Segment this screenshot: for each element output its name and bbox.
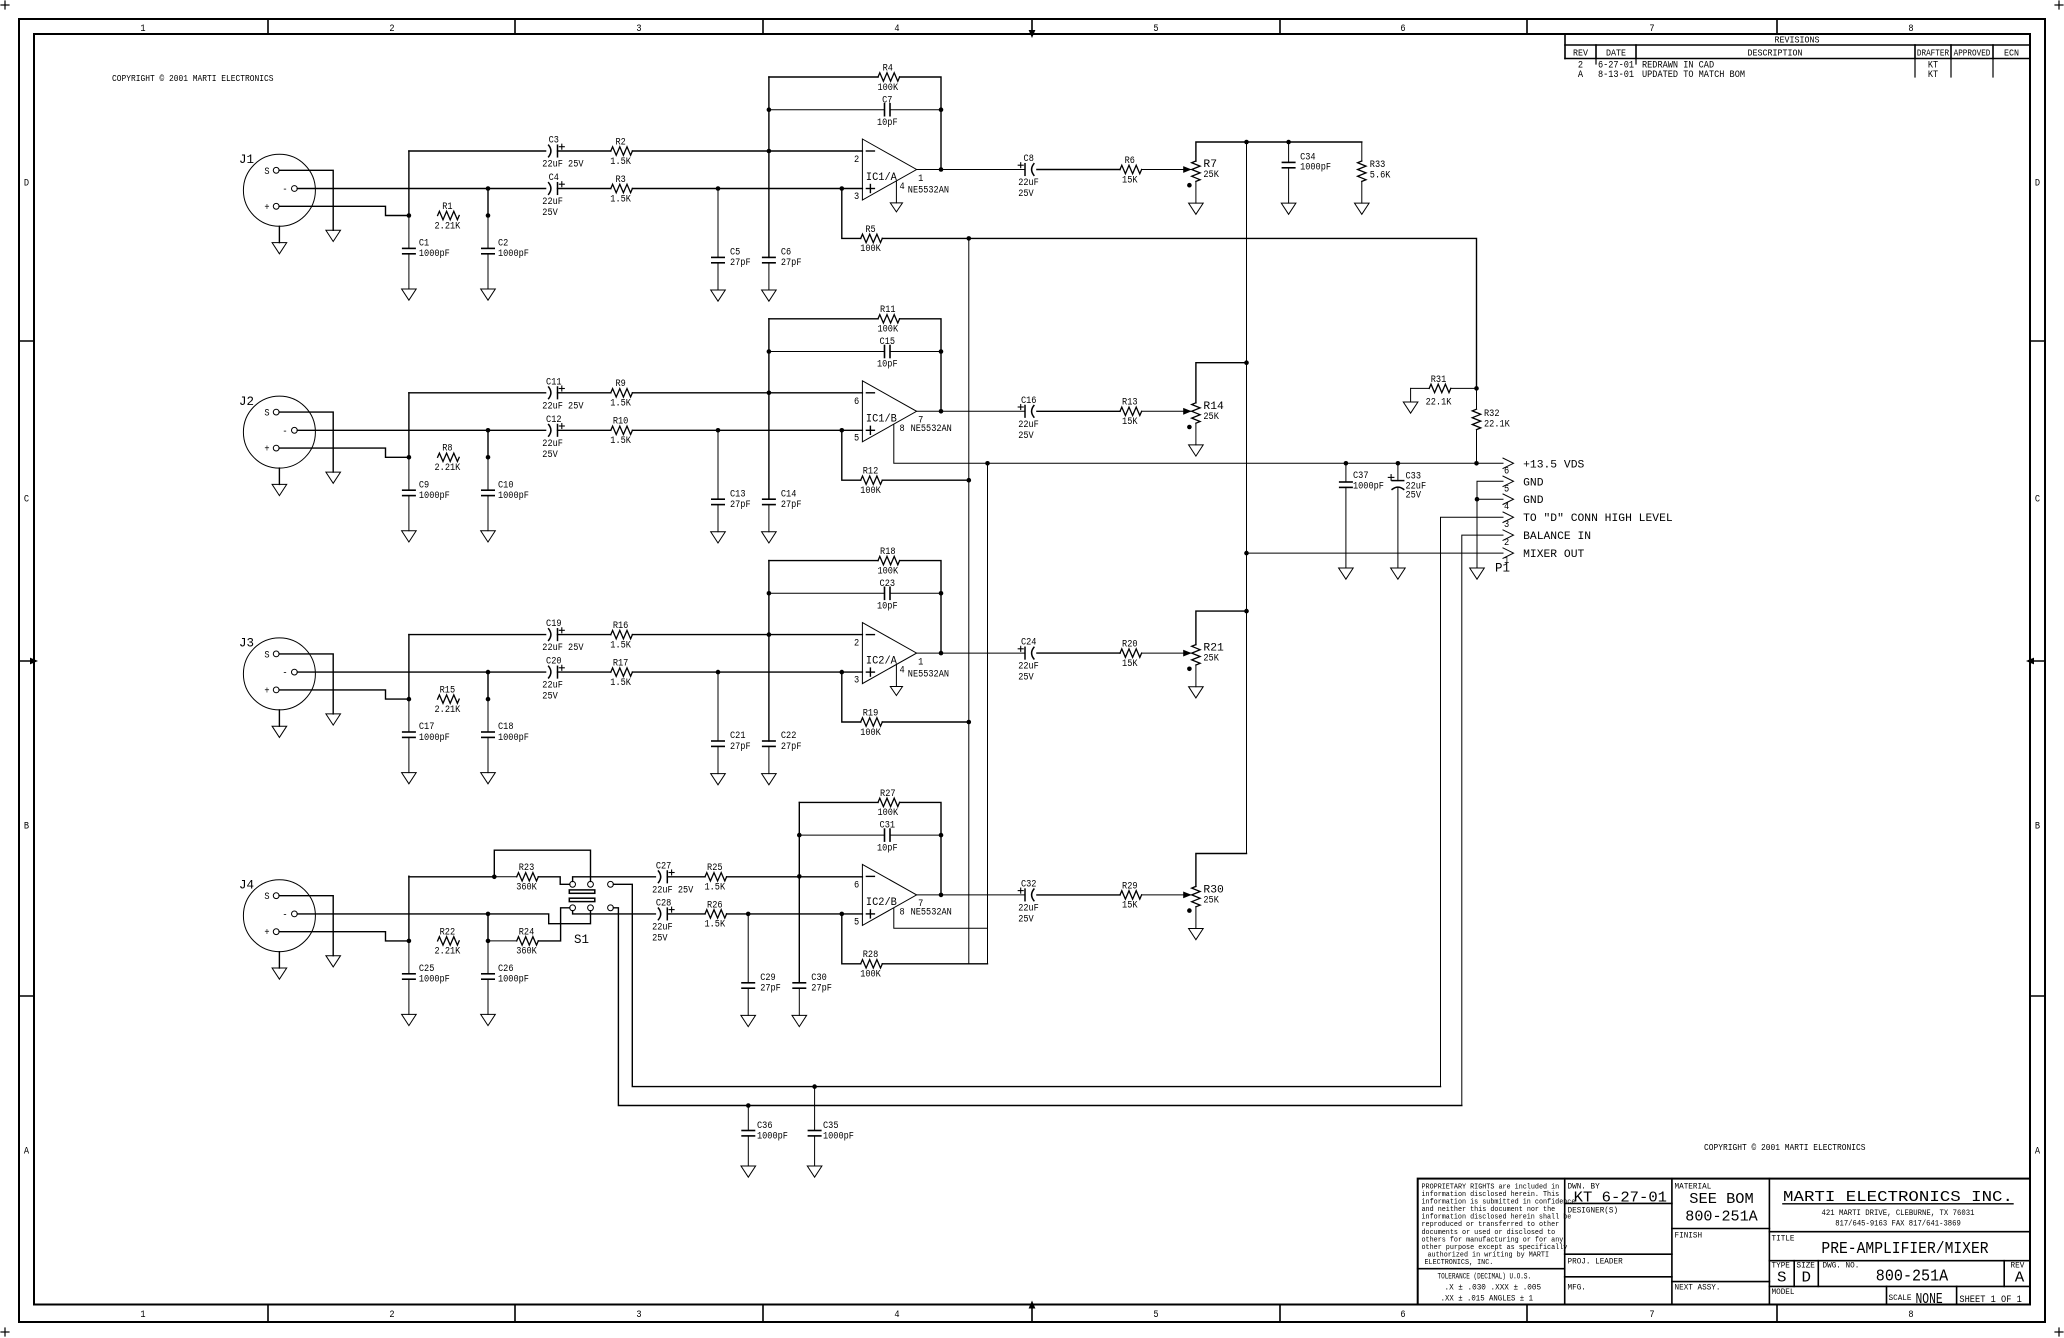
wire Rs1 to op-amp pin2/6	[632, 634, 862, 636]
svg-text:.XX ± .015 ANGLES ± 1: .XX ± .015 ANGLES ± 1	[1441, 1296, 1534, 1304]
svg-text:25V: 25V	[542, 208, 558, 219]
svg-text:5: 5	[854, 917, 859, 928]
ground C21	[711, 774, 726, 785]
resistor R22	[435, 927, 461, 957]
wire feedback left vertical	[798, 802, 800, 982]
wire R29 to R30 wiper	[1142, 894, 1191, 896]
wire Rs2 to op-amp pin3/5	[632, 188, 862, 190]
svg-text:2.21K: 2.21K	[435, 705, 461, 716]
node R8 right junction	[486, 455, 491, 460]
top border ticks	[268, 19, 1777, 34]
svg-text:R16: R16	[613, 621, 629, 632]
wire Cs2 to Rs2	[558, 188, 611, 190]
wire P1 pin4 GND	[1477, 498, 1503, 500]
potentiometer R30	[1192, 884, 1224, 906]
svg-text:+: +	[264, 445, 269, 456]
svg-text:A: A	[2015, 1270, 2025, 1287]
svg-text:27pF: 27pF	[781, 742, 802, 753]
ground C6	[762, 290, 777, 301]
svg-text:3: 3	[854, 192, 859, 203]
revisions table	[1565, 34, 2030, 77]
resistor R24	[488, 927, 538, 957]
J1 pin S	[264, 167, 279, 178]
wire R21 top rail	[1196, 611, 1247, 645]
ground C33	[1391, 568, 1406, 579]
svg-text:10pF: 10pF	[877, 360, 898, 371]
svg-text:R23: R23	[519, 863, 535, 874]
wire input column B vertical	[487, 914, 489, 941]
resistor R15	[435, 686, 461, 716]
resistor R10	[610, 417, 632, 447]
ground C37	[1339, 568, 1354, 579]
resistor R25	[705, 863, 727, 893]
svg-text:J3: J3	[239, 637, 254, 651]
op-amp IC1/B	[862, 381, 916, 442]
svg-text:-: -	[282, 427, 287, 438]
svg-text:GND: GND	[1523, 495, 1544, 507]
node op-amp output junction	[939, 651, 944, 656]
wire feedback left vertical	[768, 77, 770, 257]
capacitor C25	[403, 941, 450, 1015]
wire R12 to +13.5 vertical	[882, 479, 969, 481]
svg-text:25K: 25K	[1203, 170, 1219, 181]
svg-text:C37: C37	[1353, 471, 1369, 482]
svg-text:800-251A: 800-251A	[1876, 1268, 1949, 1287]
svg-text:8: 8	[1908, 1310, 1913, 1321]
node C37 junction	[1344, 461, 1349, 466]
svg-text:15K: 15K	[1122, 175, 1138, 186]
svg-text:C22: C22	[781, 731, 797, 742]
wire Cs2 to Rs2	[558, 671, 611, 673]
J1 pin +	[264, 203, 279, 214]
svg-text:C26: C26	[498, 964, 514, 975]
svg-text:R15: R15	[440, 686, 456, 697]
op-amp IC2/B	[862, 864, 916, 925]
svg-text:1.5K: 1.5K	[705, 920, 726, 931]
potentiometer R21	[1192, 643, 1224, 665]
wire Cs1 to Rs1	[558, 634, 611, 636]
resistor R2	[610, 137, 632, 167]
wire input column B vertical	[487, 189, 489, 216]
svg-text:22uF: 22uF	[1018, 420, 1039, 431]
svg-text:DRAFTER: DRAFTER	[1917, 48, 1949, 59]
svg-text:D: D	[24, 179, 29, 190]
node R32 to +13.5 line	[1474, 461, 1479, 466]
wire R21 bottom to ground	[1195, 665, 1197, 687]
wire R13 to R14 wiper	[1142, 410, 1191, 412]
svg-text:C5: C5	[730, 248, 740, 259]
wire input column A vertical	[408, 393, 410, 458]
svg-text:C2: C2	[498, 239, 508, 250]
svg-text:-: -	[282, 185, 287, 196]
svg-text:R31: R31	[1431, 375, 1447, 386]
resistor R20	[1120, 640, 1142, 670]
capacitor C33	[1388, 463, 1426, 568]
wire input column B vertical	[487, 430, 489, 457]
title block type	[1772, 1262, 1791, 1287]
svg-text:NE5532AN: NE5532AN	[908, 186, 949, 197]
ground C17	[402, 773, 417, 784]
node R30 wiper tie	[1187, 908, 1192, 913]
wire input column A vertical	[408, 151, 410, 216]
resistor R6	[1120, 156, 1142, 186]
title block frame	[1418, 1179, 2030, 1305]
svg-text:4: 4	[894, 1310, 899, 1321]
wire C16 to R13	[1037, 410, 1120, 412]
svg-text:C27: C27	[656, 861, 672, 872]
ground P1 GND	[1470, 568, 1485, 579]
wire feedback left vertical	[768, 561, 770, 741]
ground C2	[481, 289, 496, 300]
capacitor C17	[403, 699, 450, 773]
capacitor C1	[403, 216, 450, 290]
wire P1 pin3 to D-conn run	[1441, 517, 1504, 1086]
node pin2/6 line junction	[797, 874, 802, 879]
svg-text:4: 4	[1504, 502, 1509, 513]
svg-text:25V: 25V	[1406, 490, 1422, 501]
svg-text:R1: R1	[442, 202, 452, 213]
wire C8 to R6	[1037, 169, 1120, 171]
wire C28 to R26	[667, 913, 705, 915]
capacitor C5	[712, 189, 751, 291]
svg-text:PROJ. LEADER: PROJ. LEADER	[1568, 1258, 1623, 1267]
revision row 2	[1578, 61, 1938, 72]
svg-text:1000pF: 1000pF	[757, 1132, 788, 1143]
svg-text:A: A	[1578, 70, 1583, 81]
title block drawn-by	[1568, 1183, 1668, 1207]
capacitor C27	[652, 861, 693, 896]
wire C32 to R29	[1037, 894, 1120, 896]
resistor R9	[610, 379, 632, 409]
R21 wiper arrow	[1183, 650, 1192, 657]
svg-text:R10: R10	[613, 417, 629, 428]
svg-text:25V: 25V	[1018, 189, 1033, 200]
wire J3 - to node	[297, 671, 488, 673]
wire minus to Cs2	[488, 429, 546, 431]
svg-text:1: 1	[140, 24, 145, 35]
svg-text:1000pF: 1000pF	[419, 249, 450, 260]
svg-text:27pF: 27pF	[811, 984, 832, 995]
svg-text:R29: R29	[1122, 881, 1138, 892]
svg-text:3: 3	[854, 676, 859, 687]
capacitor C14	[763, 489, 802, 532]
wire R24 to S1 bottom-left	[538, 908, 569, 941]
wire S1 to C28	[573, 911, 656, 914]
svg-text:5.6K: 5.6K	[1370, 171, 1391, 182]
resistor R19	[860, 708, 882, 738]
ground J4 body	[272, 968, 287, 979]
resistor R27	[878, 789, 900, 819]
svg-text:2: 2	[854, 639, 859, 650]
wire Cs2 to Rs2	[558, 429, 611, 431]
svg-text:100K: 100K	[860, 970, 881, 981]
J2 pin +	[264, 445, 279, 456]
svg-text:C31: C31	[880, 821, 896, 832]
capacitor C34	[1282, 142, 1331, 203]
J2 pin -	[282, 427, 297, 438]
svg-text:COPYRIGHT © 2001 MARTI ELECTRO: COPYRIGHT © 2001 MARTI ELECTRONICS	[1704, 1143, 1866, 1153]
svg-text:-: -	[282, 910, 287, 921]
capacitor C29	[742, 914, 781, 1016]
ground C29	[741, 1015, 756, 1026]
wire mixer out bus	[1246, 142, 1248, 854]
svg-text:A: A	[24, 1147, 29, 1158]
capacitor C2	[482, 216, 529, 290]
svg-text:B: B	[24, 822, 29, 833]
svg-text:1000pF: 1000pF	[498, 975, 529, 986]
svg-text:S: S	[264, 650, 269, 661]
node C31 right junction	[939, 833, 944, 838]
ground J2 body	[272, 484, 287, 495]
wire J4 body ground	[278, 952, 280, 968]
svg-text:S: S	[1777, 1270, 1787, 1287]
wire S1 bottom-right to balance run	[613, 908, 1461, 1106]
svg-text:REV: REV	[1573, 48, 1588, 59]
connector J3	[239, 637, 315, 710]
svg-text:D: D	[2035, 179, 2040, 190]
svg-text:IC2/A: IC2/A	[866, 655, 897, 667]
node C21 junction	[716, 670, 721, 675]
svg-text:DESIGNER(S): DESIGNER(S)	[1568, 1207, 1619, 1216]
svg-text:6: 6	[1400, 1310, 1405, 1321]
capacitor C10	[482, 457, 529, 531]
ground R33	[1355, 203, 1370, 214]
left border ticks	[19, 341, 38, 996]
wire S1 to C27	[573, 877, 656, 882]
svg-text:100K: 100K	[860, 728, 881, 739]
svg-text:1.5K: 1.5K	[610, 678, 631, 689]
wire op-amp output	[917, 652, 1025, 654]
svg-text:421 MARTI DRIVE, CLEBURNE, TX: 421 MARTI DRIVE, CLEBURNE, TX 76031	[1822, 1209, 1975, 1218]
ground C5	[711, 290, 726, 301]
wire IC2/B pin8 to +13.5 vertical	[894, 908, 988, 928]
J1 pin -	[282, 185, 297, 196]
svg-text:2: 2	[389, 24, 394, 35]
svg-text:C13: C13	[730, 489, 746, 500]
resistor R31	[1411, 375, 1477, 409]
resistor R11	[878, 305, 900, 335]
svg-text:C18: C18	[498, 722, 514, 733]
svg-text:R26: R26	[707, 900, 723, 911]
svg-text:27pF: 27pF	[760, 984, 781, 995]
node C13 junction	[716, 428, 721, 433]
svg-text:100K: 100K	[878, 566, 899, 577]
svg-text:817/645-9163 FAX 817/641-3869: 817/645-9163 FAX 817/641-3869	[1835, 1220, 1961, 1229]
ground C9	[402, 531, 417, 542]
svg-text:22uF: 22uF	[1018, 903, 1039, 914]
title block rev	[2011, 1262, 2025, 1287]
svg-text:10pF: 10pF	[877, 118, 898, 129]
capacitor C12	[542, 415, 564, 461]
wire feedback left vertical	[768, 319, 770, 499]
svg-text:TITLE: TITLE	[1772, 1235, 1795, 1244]
node J3+ junction	[407, 697, 412, 702]
svg-text:22uF 25V: 22uF 25V	[542, 401, 583, 412]
svg-text:R32: R32	[1484, 409, 1500, 420]
svg-text:DESCRIPTION: DESCRIPTION	[1748, 48, 1803, 59]
svg-text:R28: R28	[863, 950, 879, 961]
node mixer bus to P1 pin1	[1244, 551, 1249, 556]
node J1+ junction	[407, 213, 412, 218]
svg-text:C35: C35	[823, 1121, 839, 1132]
svg-text:FINISH: FINISH	[1675, 1232, 1703, 1241]
svg-text:360K: 360K	[516, 883, 537, 894]
J3 pin +	[264, 686, 279, 697]
svg-text:R27: R27	[880, 789, 896, 800]
svg-text:2: 2	[389, 1310, 394, 1321]
svg-text:C4: C4	[549, 173, 559, 184]
wire J4 shield	[279, 896, 333, 956]
svg-text:2.21K: 2.21K	[435, 947, 461, 958]
wire J1 shield	[279, 170, 333, 230]
capacitor C24	[1018, 638, 1039, 684]
node pin3/5 bias junction	[840, 912, 845, 917]
svg-text:IC1/A: IC1/A	[866, 172, 897, 184]
svg-text:NEXT ASSY.: NEXT ASSY.	[1675, 1284, 1721, 1293]
node minus line junction	[486, 428, 491, 433]
svg-text:25V: 25V	[542, 450, 558, 461]
ground IC2/A pin 4	[890, 687, 902, 696]
wire R31 to ground	[1410, 388, 1412, 402]
svg-text:1000pF: 1000pF	[419, 491, 450, 502]
svg-text:C12: C12	[546, 415, 562, 426]
ground C34	[1281, 203, 1296, 214]
bottom centre arrow	[1029, 1301, 1036, 1309]
svg-text:22uF: 22uF	[542, 681, 563, 692]
svg-text:P1: P1	[1495, 562, 1510, 576]
ground J3 shield	[326, 714, 341, 725]
wire +13.5 distribution vertical	[968, 238, 970, 963]
J4 pin +	[264, 928, 279, 939]
svg-text:C29: C29	[760, 973, 776, 984]
svg-text:C7: C7	[882, 95, 892, 106]
wire J2 + to node	[279, 448, 409, 457]
resistor R13	[1120, 398, 1142, 428]
wire +13.5 feed vertical	[987, 463, 989, 964]
node C7 right junction	[939, 107, 944, 112]
ground R31	[1403, 402, 1418, 413]
node minus line junction	[486, 912, 491, 917]
svg-text:25V: 25V	[652, 933, 668, 944]
connector J2	[239, 395, 315, 468]
resistor R3	[610, 175, 632, 205]
wire ch4 upper branch left	[409, 876, 494, 878]
wire to R12	[842, 430, 861, 480]
J4 pin S	[264, 892, 279, 903]
border row letters left	[24, 179, 29, 1158]
svg-text:1000pF: 1000pF	[1353, 482, 1384, 493]
svg-text:100K: 100K	[860, 486, 881, 497]
capacitor C13	[712, 430, 751, 532]
wire feedback top left	[769, 560, 878, 562]
capacitor C11	[542, 377, 583, 412]
svg-text:R6: R6	[1125, 156, 1135, 167]
wire Rs1 to op-amp pin2/6	[632, 150, 862, 152]
svg-text:22uF: 22uF	[542, 197, 563, 208]
capacitor C22	[763, 731, 802, 774]
node C15 left junction	[767, 349, 772, 354]
wire C27 to R25	[667, 876, 705, 878]
svg-text:8-13-01: 8-13-01	[1598, 70, 1634, 81]
ground C22	[762, 774, 777, 785]
wire feedback top left	[799, 801, 878, 803]
potentiometer R7	[1192, 159, 1219, 181]
capacitor C19	[542, 619, 583, 654]
node R31/R32 junction	[1474, 386, 1479, 391]
wire input column A vertical	[408, 876, 410, 941]
svg-text:25K: 25K	[1203, 895, 1219, 906]
svg-text:4: 4	[900, 666, 905, 677]
svg-text:22uF 25V: 22uF 25V	[542, 160, 583, 171]
wire to R5	[842, 189, 861, 239]
svg-text:C32: C32	[1021, 879, 1037, 890]
capacitor C28	[652, 898, 674, 944]
resistor R12	[860, 467, 882, 497]
P1 pin 4 (GND)	[1503, 494, 1544, 513]
svg-text:3: 3	[1504, 520, 1509, 531]
svg-text:C10: C10	[498, 480, 514, 491]
P1 pin 1 (MIXER OUT)	[1503, 548, 1585, 567]
svg-text:1.5K: 1.5K	[610, 194, 631, 205]
svg-text:1000pF: 1000pF	[498, 249, 529, 260]
svg-text:+13.5 VDS: +13.5 VDS	[1523, 459, 1584, 471]
wire P1 pin5 GND to ground	[1477, 481, 1503, 568]
svg-text:22uF: 22uF	[1018, 662, 1039, 673]
title block company name	[1783, 1189, 2013, 1228]
svg-text:7: 7	[1649, 1310, 1654, 1321]
svg-text:6: 6	[1504, 466, 1509, 477]
svg-text:1.5K: 1.5K	[610, 436, 631, 447]
wire R30 bottom to ground	[1195, 907, 1197, 929]
capacitor C8	[1018, 154, 1039, 200]
svg-text:2.21K: 2.21K	[435, 221, 461, 232]
node C7 left junction	[767, 107, 772, 112]
wire J1 + to node	[279, 206, 409, 215]
svg-text:22uF 25V: 22uF 25V	[542, 643, 583, 654]
wire S1 top-right to D-conn run	[613, 884, 1440, 1086]
svg-text:1000pF: 1000pF	[498, 733, 529, 744]
svg-text:6: 6	[854, 397, 859, 408]
wire R26 to IC2/B pin 5	[727, 913, 863, 915]
svg-text:15K: 15K	[1122, 901, 1138, 912]
node mixer bus tap ch2	[1244, 360, 1249, 365]
svg-text:C6: C6	[781, 248, 791, 259]
svg-text:NONE: NONE	[1916, 1292, 1943, 1308]
svg-text:R3: R3	[615, 175, 625, 186]
svg-text:8: 8	[900, 424, 905, 435]
node R22 right junction	[486, 939, 491, 944]
wire minus to Cs2	[488, 188, 546, 190]
node +13.5 line junction	[985, 461, 990, 466]
svg-text:3: 3	[636, 24, 641, 35]
revision row A	[1578, 70, 1938, 81]
wire Rs2 to op-amp pin3/5	[632, 671, 862, 673]
ground J2 shield	[326, 472, 341, 483]
wire R30 top rail	[1196, 854, 1247, 887]
svg-text:R24: R24	[519, 927, 535, 938]
svg-text:R18: R18	[880, 547, 896, 558]
svg-text:C23: C23	[880, 579, 896, 590]
svg-text:C19: C19	[546, 619, 562, 630]
svg-text:22uF 25V: 22uF 25V	[652, 885, 693, 896]
node C29 junction	[746, 912, 751, 917]
svg-text:C25: C25	[419, 964, 435, 975]
R30 wiper arrow	[1183, 892, 1192, 899]
svg-text:SEE BOM: SEE BOM	[1689, 1191, 1753, 1208]
node pin3/5 bias junction	[840, 428, 845, 433]
svg-text:3: 3	[636, 1310, 641, 1321]
node C34 junction	[1286, 140, 1291, 145]
